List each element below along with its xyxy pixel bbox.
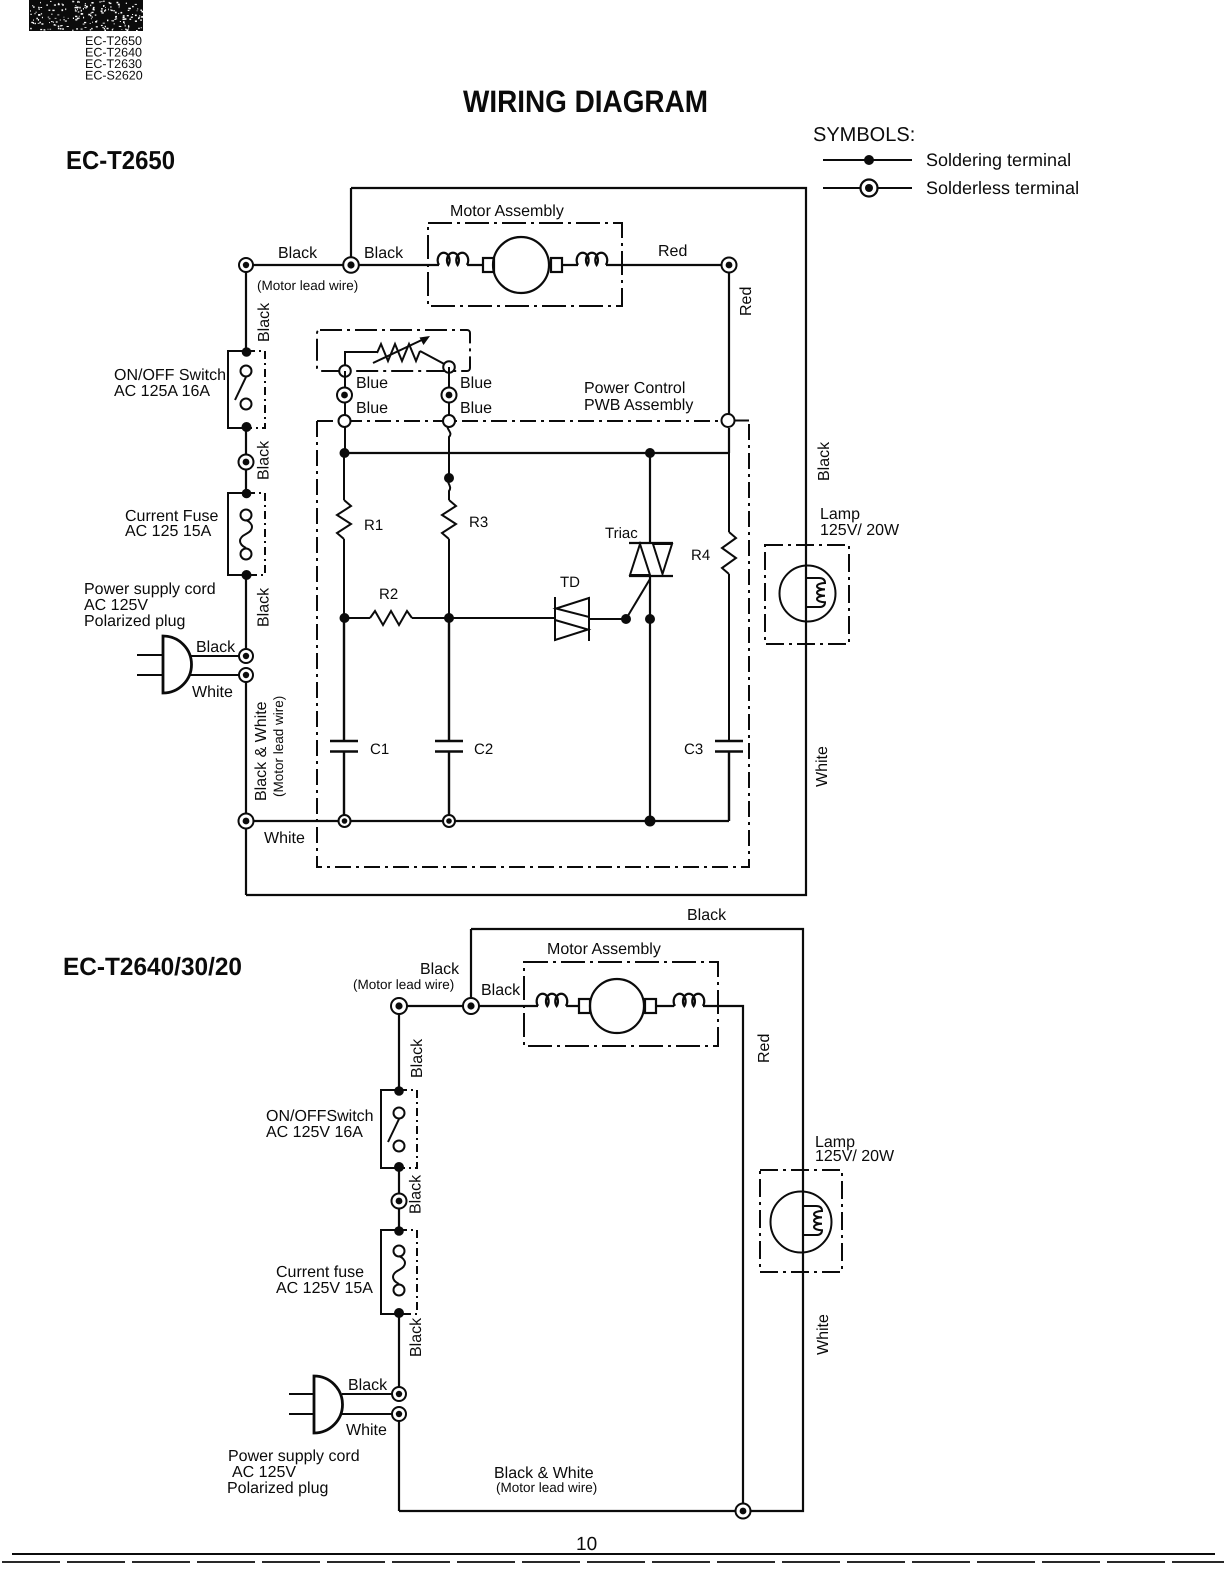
svg-text:AC 125A 16A: AC 125A 16A — [114, 383, 210, 400]
gate row: node left — [340, 613, 350, 623]
svg-text:Red: Red — [756, 1034, 773, 1063]
variable resistor VR box — [317, 330, 470, 371]
svg-text:Lamp: Lamp — [820, 506, 860, 523]
svg-text:Black: Black — [409, 1038, 426, 1078]
svg-text:EC-T2640/30/20: EC-T2640/30/20 — [63, 953, 242, 981]
labels circuit 1 — [84, 203, 900, 847]
bottom rule — [12, 1553, 1215, 1555]
wire into motor — [471, 1005, 538, 1007]
svg-text:R1: R1 — [364, 517, 383, 534]
svg-text:Black: Black — [256, 302, 273, 342]
svg-text:Black: Black — [196, 639, 236, 656]
solderless terminal below switch — [239, 455, 254, 470]
svg-text:AC 125 15A: AC 125 15A — [125, 523, 212, 540]
wire white: plug down — [398, 1414, 400, 1511]
wire white rail to PWB — [246, 820, 729, 822]
node rail C2 — [443, 815, 455, 827]
wire black: terminal to motor — [246, 264, 439, 266]
resistor R4 — [722, 453, 736, 741]
wire switch to fuse — [245, 428, 247, 492]
svg-text:Black: Black — [278, 245, 318, 262]
svg-text:SYMBOLS:: SYMBOLS: — [813, 124, 915, 146]
resistor R1 — [337, 453, 351, 618]
variable resistor VR — [345, 344, 448, 370]
current fuse F2 — [381, 1226, 417, 1318]
svg-text:Black: Black — [420, 961, 460, 978]
svg-text:C3: C3 — [684, 741, 703, 758]
lamp L2 — [771, 1192, 832, 1253]
svg-text:Power supply cord: Power supply cord — [84, 581, 216, 598]
node R3 top — [444, 473, 454, 483]
svg-text:Black & White: Black & White — [253, 701, 270, 801]
svg-text:Polarized plug: Polarized plug — [227, 1480, 328, 1497]
terminal motor-lead left — [239, 258, 253, 272]
wire blue right (wiggle) — [448, 367, 451, 500]
node rail-triac — [645, 448, 655, 458]
terminal white rail — [239, 814, 254, 829]
svg-text:AC 125V: AC 125V — [232, 1464, 296, 1481]
PWB top rail — [344, 452, 729, 454]
svg-text:Black: Black — [256, 440, 273, 480]
capacitor C1 — [330, 618, 358, 821]
resistor R3 — [442, 500, 456, 618]
ON/OFF switch S2 — [381, 1086, 417, 1172]
wire stub top corner to motor junction — [350, 188, 352, 265]
terminal red-white junction — [736, 1504, 751, 1519]
svg-text:Black: Black — [687, 907, 727, 924]
legend soldering terminal — [823, 159, 912, 161]
triac Q1 — [629, 453, 673, 821]
svg-text:Black: Black — [256, 587, 273, 627]
svg-text:Red: Red — [658, 243, 687, 260]
svg-text:Power supply cord: Power supply cord — [228, 1448, 360, 1465]
wire switch to fuse — [398, 1168, 400, 1230]
lamp L2 box — [760, 1170, 842, 1272]
svg-text:Red: Red — [738, 287, 755, 316]
svg-text:AC 125V 16A: AC 125V 16A — [266, 1124, 363, 1141]
svg-text:R3: R3 — [469, 514, 488, 531]
svg-text:Triac: Triac — [605, 525, 638, 542]
wire black: terminal down to switch — [245, 265, 247, 351]
polarized plug P2 — [314, 1376, 343, 1433]
svg-text:Black: Black — [364, 245, 404, 262]
svg-text:10: 10 — [576, 1534, 597, 1555]
svg-text:WIRING DIAGRAM: WIRING DIAGRAM — [463, 84, 708, 119]
svg-text:White: White — [814, 746, 831, 787]
svg-text:(Motor lead wire): (Motor lead wire) — [257, 278, 358, 293]
node TD out — [621, 614, 631, 624]
svg-text:White: White — [264, 830, 305, 847]
polarized plug P1 — [163, 636, 192, 693]
svg-text:White: White — [192, 684, 233, 701]
logo block (scanned) — [29, 0, 143, 31]
svg-text:(Motor lead wire): (Motor lead wire) — [271, 696, 286, 797]
terminal motor-lead junction — [343, 257, 359, 273]
svg-text:Polarized plug: Polarized plug — [84, 613, 185, 630]
legend solderless terminal — [823, 187, 912, 189]
node rail triac — [645, 816, 656, 827]
diac TD — [555, 597, 626, 641]
lamp L1 box — [765, 545, 849, 644]
svg-text:Blue: Blue — [460, 375, 492, 392]
wire black: down to switch — [398, 1006, 400, 1090]
lamp L1 — [780, 566, 836, 622]
terminal red — [722, 258, 737, 273]
svg-text:Black: Black — [408, 1317, 425, 1357]
motor assembly box 2 — [524, 962, 718, 1046]
svg-text:AC 125V: AC 125V — [84, 597, 148, 614]
wire gate diagonal — [626, 579, 650, 619]
terminal black plug 2 — [392, 1387, 406, 1401]
terminal white plug — [239, 668, 253, 682]
current fuse F1 — [228, 489, 265, 580]
node rail-left — [340, 448, 350, 458]
svg-text:EC-S2620: EC-S2620 — [85, 69, 143, 83]
svg-text:(Motor lead wire): (Motor lead wire) — [353, 977, 454, 992]
node R2-R3 — [444, 613, 454, 623]
svg-text:Motor Assembly: Motor Assembly — [547, 941, 661, 958]
svg-text:AC 125V 15A: AC 125V 15A — [276, 1280, 373, 1297]
svg-text:Blue: Blue — [356, 400, 388, 417]
svg-text:Black: Black — [481, 982, 521, 999]
svg-text:Soldering terminal: Soldering terminal — [926, 150, 1071, 170]
VR arrow — [373, 338, 426, 363]
svg-text:125V/ 20W: 125V/ 20W — [820, 522, 900, 539]
svg-text:Blue: Blue — [356, 375, 388, 392]
svg-text:Power Control: Power Control — [584, 380, 685, 397]
ON/OFF switch S1 — [228, 347, 265, 432]
svg-text:Current fuse: Current fuse — [276, 1264, 364, 1281]
motor assembly box — [428, 223, 622, 306]
svg-text:Black: Black — [348, 1377, 388, 1394]
solderless terminals blue — [337, 388, 352, 403]
svg-text:Solderless terminal: Solderless terminal — [926, 178, 1079, 198]
wire red: motor down — [703, 1006, 743, 1511]
VR lead circles — [339, 365, 351, 377]
svg-text:Blue: Blue — [460, 400, 492, 417]
wire fuse to plug — [398, 1314, 400, 1394]
svg-text:Black: Black — [408, 1174, 425, 1214]
terminal motor-lead right 2 — [463, 998, 479, 1014]
svg-text:ON/OFF Switch: ON/OFF Switch — [114, 367, 226, 384]
terminal motor-lead left 2 — [391, 998, 407, 1014]
motor M1: coils, brushes, rotor — [438, 237, 608, 293]
svg-text:ON/OFFSwitch: ON/OFFSwitch — [266, 1108, 374, 1125]
motor M2 — [537, 979, 705, 1033]
svg-text:R2: R2 — [379, 586, 398, 603]
svg-text:TD: TD — [560, 574, 580, 591]
terminal white plug 2 — [392, 1407, 406, 1421]
svg-text:C2: C2 — [474, 741, 493, 758]
capacitor C3 — [715, 741, 743, 821]
svg-text:125V/ 20W: 125V/ 20W — [815, 1148, 895, 1165]
capacitor C2 — [435, 618, 463, 821]
svg-text:(Motor lead wire): (Motor lead wire) — [496, 1480, 597, 1495]
wire junction down to terminal — [470, 929, 472, 1006]
wire red: motor to terminal — [606, 264, 728, 266]
PWB edge circles — [339, 415, 351, 427]
svg-text:EC-T2650: EC-T2650 — [66, 145, 175, 175]
svg-text:White: White — [346, 1422, 387, 1439]
wire fuse to plug black terminal — [245, 576, 247, 656]
solderless terminal below switch 2 — [392, 1194, 407, 1209]
svg-text:PWB Assembly: PWB Assembly — [584, 397, 693, 414]
node triac line — [645, 614, 655, 624]
wire outer loop top/right/bottom (black to lamp, white return) — [246, 188, 806, 895]
wire blue left — [344, 371, 346, 453]
svg-text:Motor Assembly: Motor Assembly — [450, 203, 564, 220]
svg-text:Black: Black — [816, 441, 833, 481]
wire white: plug down and along bottom — [245, 675, 247, 895]
PWB assembly box — [317, 421, 749, 867]
svg-text:White: White — [815, 1314, 832, 1355]
node rail C1 — [339, 815, 351, 827]
svg-text:C1: C1 — [370, 741, 389, 758]
labels circuit 2 — [227, 907, 895, 1555]
wire red vertical into PWB — [728, 265, 730, 453]
resistor R2 — [344, 611, 555, 625]
svg-text:R4: R4 — [691, 547, 710, 564]
wire terminal to terminal — [399, 1005, 471, 1007]
wire black top loop through lamp — [399, 929, 803, 1511]
terminal black plug — [239, 649, 253, 663]
model list — [85, 34, 143, 83]
